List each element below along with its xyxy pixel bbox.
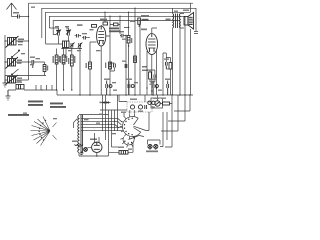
label under E3 <box>158 90 162 91</box>
wire C6b <box>82 37 90 39</box>
coil L2 variable <box>6 57 19 69</box>
label left coil3 <box>17 80 22 81</box>
resistor R3 <box>55 55 58 64</box>
left ground rail <box>4 35 6 81</box>
wires socket-transformer grid bends <box>115 113 125 128</box>
label C9 <box>122 61 126 62</box>
riser x140 <box>139 21 141 95</box>
label R5 <box>74 56 75 63</box>
resistor R9 <box>163 102 170 105</box>
label near R10 <box>118 147 124 148</box>
label L1 <box>18 39 24 41</box>
label near S1a <box>21 53 25 54</box>
wires tube V1 <box>101 12 110 95</box>
label tap a <box>96 123 100 124</box>
label wafer left <box>112 133 116 134</box>
wire left net <box>5 41 29 80</box>
tiny labels under V2 <box>142 66 147 68</box>
label near C6b <box>82 33 87 34</box>
electrolytic E3 <box>152 81 158 96</box>
wafer switch small section <box>120 136 144 148</box>
T3 heater winding <box>75 145 83 146</box>
riser x135 <box>134 8 136 95</box>
junction dots rail <box>56 89 73 90</box>
junction dot input <box>28 16 29 17</box>
label near c2 <box>36 58 41 59</box>
resistor R12 <box>134 56 137 63</box>
pilot lamp <box>84 148 88 152</box>
fuse lamps <box>148 101 155 104</box>
resistor Rk V2 <box>149 72 152 79</box>
capacitor C9 <box>125 64 127 68</box>
wafer small pins <box>124 141 132 144</box>
ground lamp <box>80 152 84 157</box>
coil L3 variable <box>6 75 19 85</box>
trimmer cap CT1 <box>56 30 61 36</box>
label E2 <box>126 79 132 80</box>
relay box outline <box>151 98 163 108</box>
capacitor Ck V2 <box>154 75 156 79</box>
dashed box <box>127 102 152 112</box>
wire mid risers <box>57 48 80 96</box>
junction dots left <box>4 40 29 62</box>
resistor R10 <box>119 151 128 155</box>
IF transformer box T1 <box>63 41 70 48</box>
resistor R7 <box>127 36 130 44</box>
text block note 2 <box>141 15 149 17</box>
wires socket top <box>130 110 149 131</box>
switch S1b <box>11 69 18 75</box>
label near ct3 <box>68 50 72 51</box>
text 400ohm lines <box>28 101 43 103</box>
screen resistor box <box>114 23 119 26</box>
wire C5 <box>120 16 126 95</box>
resistor R2 mid <box>89 62 92 69</box>
label near v1 top <box>90 29 94 30</box>
capacitor C2 padder <box>32 60 34 68</box>
wire grid join <box>112 146 120 148</box>
junction dots if <box>61 48 80 49</box>
plug connector X1 <box>101 101 111 103</box>
wires speaker <box>191 3 199 95</box>
label R5 val <box>68 58 69 64</box>
wire screen box <box>110 23 120 25</box>
electrolytic E2 <box>128 81 134 96</box>
label near ct4 <box>77 50 81 51</box>
label near meter <box>161 98 166 99</box>
label tr <box>166 19 171 21</box>
label dial note <box>23 113 27 114</box>
right bottom verticals <box>167 95 190 147</box>
output tube V2 <box>146 34 158 55</box>
mains plug <box>148 144 158 148</box>
wires socket-transformer grid verticals <box>103 95 118 156</box>
label near v1 pin <box>96 50 101 51</box>
wires tube V2 <box>147 28 157 95</box>
wafer switch big section <box>120 114 146 139</box>
wire bus4 to trimmer <box>49 28 58 35</box>
label r7 val <box>131 38 132 43</box>
wire C1 to riser <box>19 16 28 18</box>
wire C8 <box>110 63 114 71</box>
junction C6a <box>80 35 81 36</box>
label near speaker top <box>174 11 178 12</box>
wire if net <box>46 41 82 49</box>
junction dots extra <box>79 94 190 156</box>
coupling capacitor C5 <box>121 34 123 38</box>
label E1 <box>104 79 110 80</box>
label VT2 <box>77 24 83 26</box>
wire c7r8 net <box>163 53 170 95</box>
tube V1 <box>97 26 106 46</box>
resistor R4 <box>62 55 65 64</box>
coil L1 variable <box>6 36 19 48</box>
speaker SP <box>184 13 194 30</box>
wires V3 <box>87 133 99 156</box>
wire antenna to C1 <box>12 16 18 18</box>
junction dots V2 <box>146 87 157 91</box>
label bus left <box>31 7 35 8</box>
label near E2 top <box>134 82 138 83</box>
electrolytic E4 <box>167 81 169 96</box>
wire choke <box>124 24 139 27</box>
label near coil1 val <box>18 44 23 45</box>
wire r2 <box>90 42 97 95</box>
label near fan <box>53 118 57 119</box>
bus line 2 <box>42 8 196 38</box>
label R1 <box>47 66 48 71</box>
trimmer cap CT3 <box>70 43 75 48</box>
label near trimmer ct1 <box>55 26 59 27</box>
wires mains <box>148 112 164 150</box>
label 150 <box>13 12 19 14</box>
trimmer cap CT2 <box>66 30 71 36</box>
wire stubs on rail <box>36 85 52 90</box>
capacitor C1 150p <box>18 15 20 19</box>
wire rail step <box>57 90 193 95</box>
label R3 <box>53 56 54 63</box>
capacitor C8 <box>114 64 116 68</box>
label near transformer tap <box>84 119 89 120</box>
wire trimmers <box>59 28 69 41</box>
wire block net <box>8 89 57 91</box>
label C2 <box>30 57 35 58</box>
label near wafer <box>138 111 143 112</box>
label X1 <box>100 102 102 104</box>
label 6.3v <box>72 141 78 142</box>
label speaker <box>183 10 189 11</box>
label near E1 top <box>112 82 116 83</box>
lamp A inside box <box>130 105 146 109</box>
wire lower rail <box>100 109 127 111</box>
fan dial dots <box>39 120 47 141</box>
wires T2 <box>173 8 184 95</box>
label R4 <box>60 56 61 63</box>
rectifier tube V3 <box>92 142 102 152</box>
label R4 val <box>66 56 67 62</box>
label tap b <box>99 114 103 115</box>
label L3 <box>17 78 22 79</box>
bus line 4 <box>49 16 185 28</box>
wire C6a <box>75 35 81 37</box>
label near L2 val <box>17 63 22 64</box>
meter M <box>155 101 160 106</box>
junction <box>41 89 42 90</box>
label under Rk <box>150 84 155 85</box>
output transformer T2 <box>173 14 181 29</box>
wafer big pins <box>124 118 133 136</box>
wire RkCk <box>147 70 155 82</box>
bottom left rail <box>5 76 46 82</box>
capacitor C4 block <box>16 85 24 90</box>
plate resistor box <box>103 22 108 25</box>
label L2 <box>17 60 22 62</box>
resistor R5 <box>70 55 73 66</box>
label meter <box>153 98 159 99</box>
input riser <box>28 17 30 81</box>
label wafer bottom <box>128 149 132 150</box>
capacitor C6b <box>84 36 86 40</box>
resistor R11 <box>109 62 112 69</box>
label V3 <box>90 139 97 141</box>
capacitor C6a <box>77 34 79 38</box>
label E4 <box>165 79 171 80</box>
label E3 <box>150 79 156 80</box>
wires bottom net <box>119 95 172 107</box>
ground 2 <box>6 90 11 100</box>
switch S1a <box>11 50 19 58</box>
trimmer cap CT4 <box>78 43 83 48</box>
right rail wires <box>180 16 185 95</box>
power transformer T3 <box>78 115 83 154</box>
antenna <box>7 3 17 17</box>
label dashed box <box>130 99 137 100</box>
fan dial <box>31 117 57 146</box>
wire primary tick <box>74 119 78 129</box>
label R3 val <box>59 56 60 62</box>
label near R2 <box>86 63 87 68</box>
resistor R8 <box>169 63 172 70</box>
caption text <box>8 114 29 116</box>
bus line 3 <box>46 12 190 44</box>
wires R10 <box>109 143 134 153</box>
ground left <box>3 81 8 87</box>
label near C7 <box>164 59 169 60</box>
choke box <box>138 18 141 24</box>
bus line 1 (top) <box>29 3 194 16</box>
label top box <box>100 19 107 21</box>
text block note 1 <box>109 28 119 30</box>
label under E1 <box>113 90 117 91</box>
label near C2 low <box>30 64 34 65</box>
T3 taps <box>79 115 123 157</box>
label R11 <box>105 63 106 69</box>
label near trimmer ct2 <box>65 26 69 27</box>
label cap c5 val <box>122 39 127 40</box>
label PL1 <box>141 29 147 31</box>
bus line 5 <box>53 21 180 35</box>
label socket <box>121 112 126 113</box>
wire R7 <box>128 12 130 95</box>
label near box C4 <box>16 82 22 83</box>
text 4v lines <box>50 103 63 105</box>
wire rail top <box>5 40 8 42</box>
junction dots center <box>104 8 140 47</box>
label mains <box>146 151 158 153</box>
wires right bottom joins <box>161 111 190 147</box>
resistor R1 <box>43 65 46 72</box>
electrolytic E1 <box>106 81 112 96</box>
wire R1 <box>34 62 45 76</box>
label near lamp <box>79 146 83 147</box>
grid stopper box <box>92 25 97 28</box>
label C5 <box>119 31 124 32</box>
wire C2 <box>29 61 33 63</box>
capacitor C7 <box>166 62 168 69</box>
